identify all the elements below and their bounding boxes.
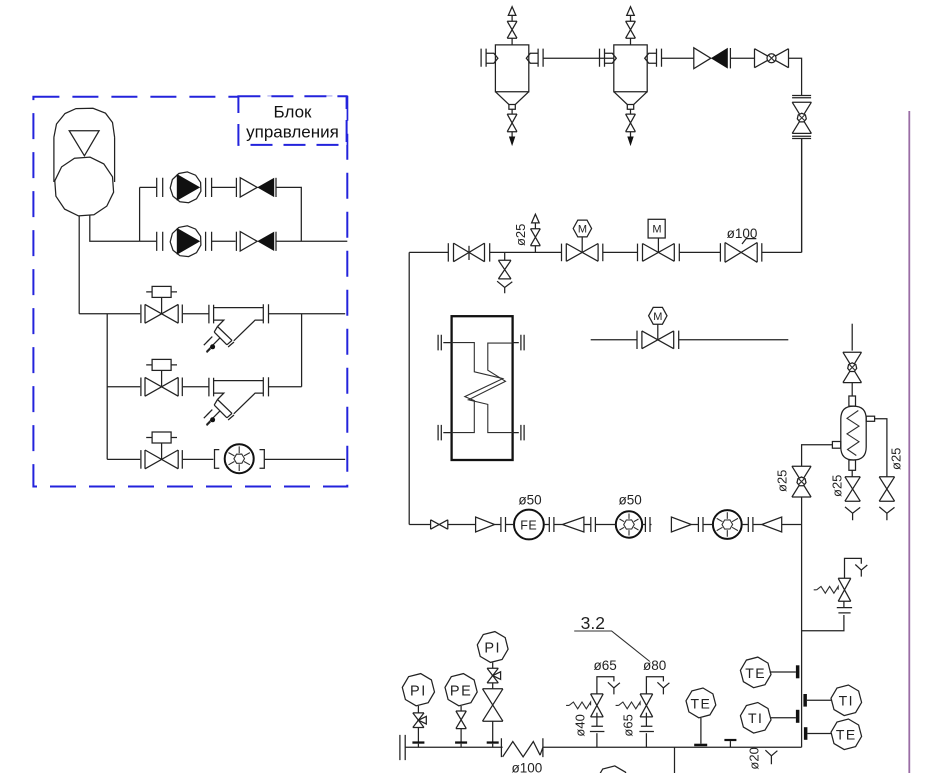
wire B valve-strainer xyxy=(183,386,209,388)
wire relief branch xyxy=(802,615,844,631)
hx internal path 1 xyxy=(452,343,503,433)
flange mv1 in xyxy=(561,244,563,262)
instrument TE lower-right xyxy=(831,719,862,750)
wire TE right xyxy=(807,733,831,735)
gate valve with actuator row C xyxy=(145,450,178,469)
wire pump manifold xyxy=(139,187,141,241)
PI1 tap xyxy=(417,728,419,743)
wire TI left xyxy=(771,717,796,719)
wire to middle drain xyxy=(851,470,853,477)
flange check2 out xyxy=(275,232,277,251)
flange bypass out xyxy=(678,331,680,349)
hx left top flange xyxy=(438,335,452,351)
balancing valve DN25 riser xyxy=(792,466,811,497)
svg-text:ø25: ø25 xyxy=(889,448,904,470)
motor valve M1 hex xyxy=(566,244,598,262)
svg-text:ø65: ø65 xyxy=(594,658,617,673)
instrument TI lower-left xyxy=(740,703,771,734)
balancing valve top row xyxy=(755,49,789,68)
pump P2 xyxy=(170,226,201,257)
wire A valve-strainer xyxy=(183,313,209,315)
flange check1 out xyxy=(275,178,277,197)
wire FE row segs xyxy=(409,524,801,526)
svg-text:ø20: ø20 xyxy=(747,747,762,769)
strainer row B xyxy=(204,377,269,425)
svg-text:M: M xyxy=(652,224,661,236)
separator right nozzle xyxy=(866,416,874,421)
separator neck top xyxy=(849,396,856,406)
hx left bottom flange xyxy=(438,425,452,441)
thermowell TI right xyxy=(803,694,807,707)
control unit label box xyxy=(238,96,346,145)
wire top elbow down xyxy=(789,58,802,95)
expansion compensator xyxy=(501,738,543,757)
svg-text:M: M xyxy=(578,224,587,236)
wire main riser lower xyxy=(801,525,803,748)
flange check1 in xyxy=(235,178,237,197)
thermowell TI left xyxy=(796,710,800,723)
wire mv1-mv2 xyxy=(603,251,638,253)
drain Y bottom xyxy=(765,750,777,764)
safety valve 2 outlet xyxy=(646,677,663,694)
svg-text:TI: TI xyxy=(748,710,763,726)
instrument PI 1 xyxy=(402,674,434,706)
bottom main pipe xyxy=(405,746,801,748)
separator neck bottom xyxy=(849,460,856,470)
check valve pump2 xyxy=(240,232,257,251)
flange valve1 in xyxy=(140,305,142,324)
svg-text:FE: FE xyxy=(520,519,537,533)
wire check-balance xyxy=(730,57,754,59)
wire right drain xyxy=(875,419,887,477)
pipe end cap xyxy=(400,735,405,760)
valve PI2 xyxy=(492,683,494,689)
flow arrow right 2 xyxy=(671,517,691,532)
flow arrow left 1 xyxy=(562,517,584,532)
relief seal bars xyxy=(837,608,852,613)
wire TE left xyxy=(770,671,796,673)
svg-text:управления: управления xyxy=(246,123,339,142)
wire seal-valve xyxy=(843,601,845,607)
svg-text:Блок: Блок xyxy=(274,103,313,122)
gauge cock PI2 xyxy=(492,663,494,669)
instrument PE xyxy=(445,674,477,706)
svg-text:PE: PE xyxy=(450,683,472,699)
PE tap xyxy=(460,729,462,742)
gate valve with actuator row B xyxy=(145,377,178,396)
wire v1-tee xyxy=(490,251,562,253)
svg-text:M: M xyxy=(653,311,662,323)
svg-text:3.2: 3.2 xyxy=(581,613,605,633)
wire branch header xyxy=(79,314,140,460)
wire tank left drop xyxy=(78,216,80,314)
separator left nozzle xyxy=(832,442,840,449)
pump P1 xyxy=(170,172,201,203)
balancing valve vertical riser xyxy=(792,102,811,133)
flange m1 in xyxy=(591,517,596,532)
valve PE xyxy=(460,706,462,711)
right drain valve xyxy=(879,477,894,501)
expansion tank xyxy=(54,108,115,182)
wire branch B stub xyxy=(107,386,140,388)
wire valve-vessel neck xyxy=(851,383,853,396)
control unit dashed boundary xyxy=(33,97,347,487)
flange pump1 in xyxy=(157,178,163,197)
wire pump1 to check xyxy=(212,186,236,188)
air vent main row xyxy=(534,246,536,253)
flange pump1 out xyxy=(206,178,212,197)
air separator vessel F2 xyxy=(614,45,647,92)
flange m1 out xyxy=(645,517,650,532)
spare pocket xyxy=(724,739,736,741)
svg-text:ø40: ø40 xyxy=(573,714,588,736)
flange valve3 out xyxy=(181,450,183,469)
wire tank right stub xyxy=(90,215,140,242)
flange bottom of riser valve xyxy=(792,136,811,138)
thermowell TE right xyxy=(804,727,808,740)
safety valve 1 outlet xyxy=(597,677,614,694)
purple border line xyxy=(908,111,910,773)
flange m2 out xyxy=(748,517,753,532)
meter 2 xyxy=(713,510,742,539)
wire bypass right xyxy=(679,339,789,341)
wire separator feed xyxy=(851,324,853,351)
flange FE in xyxy=(501,517,506,532)
flange bypass in xyxy=(636,331,638,349)
flange pump2 out xyxy=(206,232,212,251)
svg-text:ø100: ø100 xyxy=(727,226,758,241)
flange m2 in xyxy=(698,517,703,532)
air separator vessel F1 xyxy=(495,45,528,92)
svg-text:PI: PI xyxy=(484,641,501,657)
instrument TE upper-left xyxy=(740,657,771,688)
PI2 tap xyxy=(492,721,494,742)
flange mv2 in xyxy=(637,244,639,262)
svg-text:PI: PI xyxy=(410,683,427,699)
wire C valve-meter xyxy=(183,458,214,460)
flange valve2 out xyxy=(181,378,183,397)
bracket right xyxy=(260,450,265,469)
wire mv2-v100 xyxy=(679,251,720,253)
wire relief outlet xyxy=(845,558,862,578)
wire pump2 inlet xyxy=(140,240,157,242)
flange v1 out xyxy=(489,243,491,261)
wire riser to main row xyxy=(801,139,803,253)
flange check2 in xyxy=(235,232,237,251)
check valve pump1 xyxy=(240,178,257,197)
wire nozzle to riser xyxy=(802,445,833,467)
motor valve M3 hex xyxy=(642,331,674,349)
flow arrow left 2 xyxy=(762,517,782,532)
wire branch C stub xyxy=(107,458,140,460)
svg-text:ø100: ø100 xyxy=(512,760,543,773)
svg-text:TE: TE xyxy=(690,695,711,711)
wire B out xyxy=(269,386,302,388)
flange mv2 out xyxy=(678,244,680,262)
middle drain valve xyxy=(845,477,860,501)
wire v100 elbow up xyxy=(762,139,802,253)
flange top of riser valve xyxy=(792,96,811,98)
safety valve 1 Y xyxy=(608,682,620,694)
wire main row left elbow xyxy=(409,252,448,524)
flange valve1 out xyxy=(181,305,183,324)
bracket left xyxy=(215,450,220,469)
partial instrument bottom xyxy=(596,766,628,773)
TE pocket stem xyxy=(700,718,702,744)
check valve top row xyxy=(694,48,711,69)
balancing valve separator xyxy=(843,352,862,382)
wire drop to consumer xyxy=(674,747,676,773)
flange pump2 in xyxy=(157,232,163,251)
flange FE out xyxy=(549,517,554,532)
svg-text:ø65: ø65 xyxy=(621,714,636,736)
relief outlet Y xyxy=(855,565,867,577)
motor valve M2 square xyxy=(643,244,675,262)
wire pump1 out elbow xyxy=(276,187,301,241)
wire vessel2-check xyxy=(662,57,694,59)
instrument TE pocket xyxy=(686,688,716,718)
wire to arrow1 xyxy=(448,524,476,526)
middle drain Y xyxy=(845,507,860,520)
thermowell TE left xyxy=(796,665,800,678)
drain tee valve xyxy=(504,252,506,260)
flange top check out xyxy=(729,48,731,68)
gauge cock PI1 xyxy=(417,706,419,713)
flange v100 out xyxy=(761,243,763,261)
wire C out xyxy=(264,458,345,460)
small separator vessel xyxy=(841,406,866,460)
safety valve 1 seal xyxy=(596,733,598,747)
safety valve 2 seal xyxy=(645,733,647,747)
flange v1 in xyxy=(447,243,449,261)
instrument TI right xyxy=(831,685,862,716)
right drain Y xyxy=(879,507,894,520)
meter 1 xyxy=(616,511,642,537)
wire bypass left xyxy=(591,339,637,341)
valve DN100 with lever xyxy=(725,243,757,263)
wire pump1 inlet xyxy=(140,186,157,188)
wire vessel1-vessel2 xyxy=(543,57,614,59)
relief spring valve xyxy=(838,578,851,601)
wire pump row2 out xyxy=(276,240,347,242)
svg-text:ø25: ø25 xyxy=(513,224,528,246)
gate valve V1 xyxy=(454,243,485,262)
gate valve with actuator row A xyxy=(145,304,178,323)
hx right top flange xyxy=(513,335,525,351)
flow meter row C xyxy=(225,444,254,473)
wire A out xyxy=(269,314,345,387)
instrument PI 2 xyxy=(477,632,508,663)
safety valve 2 Y xyxy=(657,682,669,694)
heat exchanger shell xyxy=(452,316,513,460)
flange valve2 in xyxy=(140,378,142,397)
safety valve 2 xyxy=(640,694,653,717)
svg-text:ø50: ø50 xyxy=(619,492,642,507)
hx right bottom flange xyxy=(513,425,525,441)
svg-text:TE: TE xyxy=(836,727,857,743)
svg-text:TE: TE xyxy=(745,665,766,681)
flange v100 in xyxy=(719,243,721,261)
hx internal path 2 xyxy=(469,343,513,433)
flange valve3 in xyxy=(140,450,142,469)
valve small FE row xyxy=(431,520,448,529)
drain funnel Y xyxy=(497,281,512,293)
svg-text:ø50: ø50 xyxy=(518,492,541,507)
svg-text:TI: TI xyxy=(839,693,854,709)
wire pump2 to check xyxy=(212,240,236,242)
wire TI right xyxy=(807,699,832,701)
svg-text:ø80: ø80 xyxy=(643,658,666,673)
svg-text:ø25: ø25 xyxy=(775,470,790,492)
wire riser valve to FE row xyxy=(801,497,803,525)
flow element FE xyxy=(514,510,544,540)
flange mv1 out xyxy=(602,244,604,262)
svg-text:ø25: ø25 xyxy=(830,475,845,497)
safety valve 1 xyxy=(591,694,604,717)
flow arrow right 1 xyxy=(476,517,495,532)
strainer row A xyxy=(204,304,269,352)
